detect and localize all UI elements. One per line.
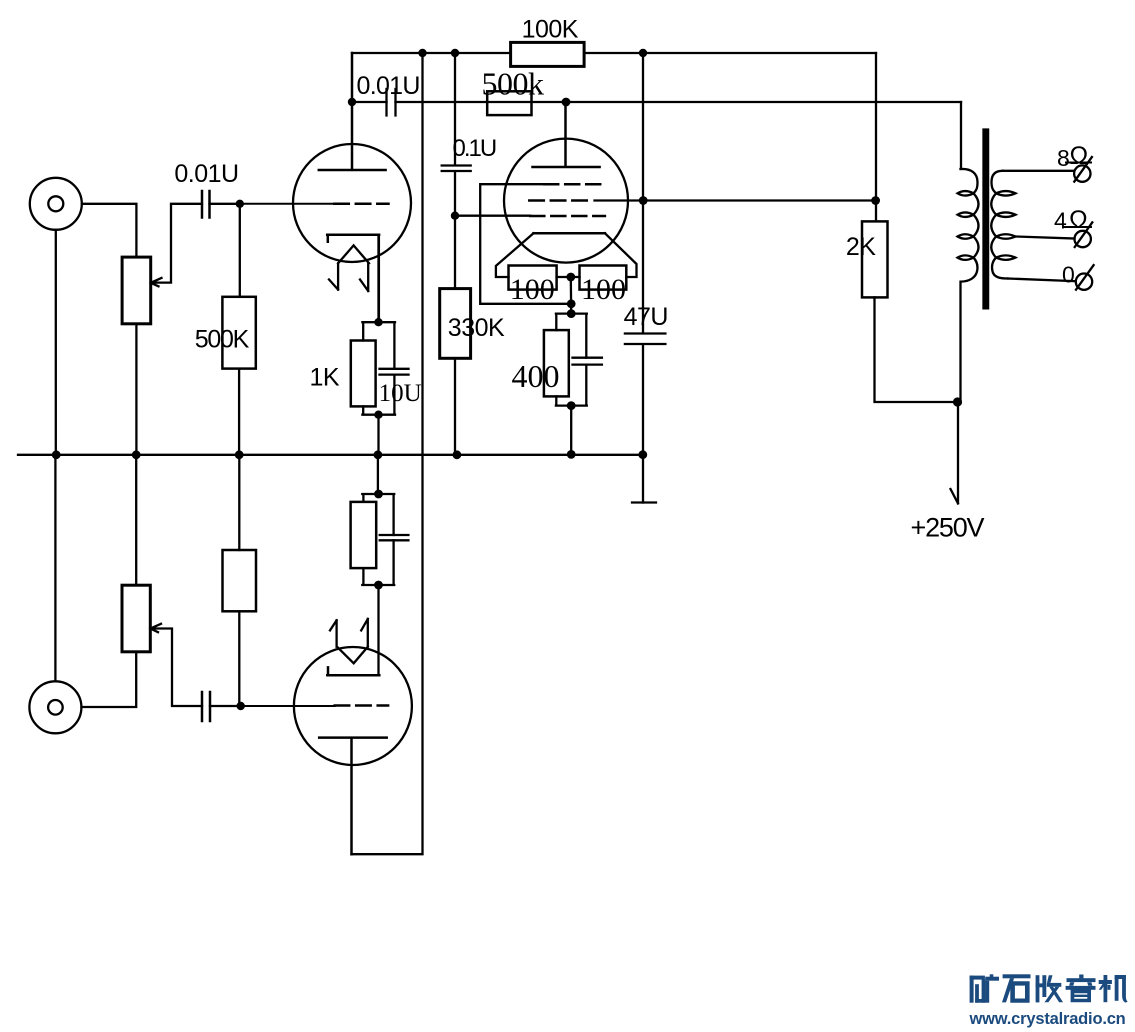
node rail / 500K xyxy=(235,450,244,459)
node V1-plate / feedback-bus xyxy=(348,98,356,106)
resistor 330K xyxy=(440,289,471,359)
svg-text:+250V: +250V xyxy=(911,513,985,543)
node 400 bottom xyxy=(567,401,576,410)
svg-text:330K: 330K xyxy=(448,314,505,342)
capacitor 0.01U feedback xyxy=(387,89,396,116)
svg-text:4: 4 xyxy=(1054,208,1067,234)
wire long vertical to lower plate xyxy=(352,53,423,854)
node rail / J1 xyxy=(52,450,61,459)
wire secondary tap 8ohm xyxy=(1003,170,1075,172)
tube V2 grid1 xyxy=(544,183,607,186)
wire 2K bottom to B+ node xyxy=(875,297,958,402)
CJK char kuang xyxy=(970,974,999,1002)
tube V3 cathode xyxy=(327,667,379,675)
wire J1 ground stub xyxy=(55,230,57,455)
node B+ / transformer primary xyxy=(953,397,962,406)
resistor 100 right xyxy=(580,266,627,290)
capacitor 400-bypass xyxy=(573,358,602,365)
ground xyxy=(632,501,656,503)
capacitor C-in-2 xyxy=(202,692,210,721)
wire 0.1U branch vertical xyxy=(454,53,456,455)
svg-text:0.1U: 0.1U xyxy=(453,135,496,162)
node cathode / grid1-bracket xyxy=(567,299,576,308)
svg-text:0.01U: 0.01U xyxy=(174,160,238,188)
node rail / 400 xyxy=(567,450,576,459)
resistor 400 xyxy=(544,330,569,396)
wire cathode node xyxy=(557,277,580,314)
svg-text:10U: 10U xyxy=(379,380,422,407)
tube V2 grid3 xyxy=(530,215,605,218)
wire 47U branch vertical xyxy=(642,53,644,503)
node top-bus / 47U-branch xyxy=(639,49,647,57)
wire V2 grid3 lead xyxy=(455,215,530,217)
tube V2 plate xyxy=(533,102,600,167)
resistor 1K + capacitor 10U upper xyxy=(362,235,395,369)
svg-text:Ω: Ω xyxy=(1069,206,1087,234)
tube V2 cathode xyxy=(534,232,605,235)
svg-text:0.01U: 0.01U xyxy=(357,72,420,100)
tube V1 plate xyxy=(319,53,386,170)
CJK char shou xyxy=(1036,975,1063,1002)
resistor 1K + capacitor 10U lower xyxy=(362,455,394,535)
capacitor C-in-1 0.01U xyxy=(202,191,210,218)
tube V3 grid xyxy=(241,705,335,707)
CJK char shi xyxy=(1002,974,1031,1002)
node 1K bottom xyxy=(374,411,382,419)
capacitor 47U xyxy=(625,334,666,345)
transformer core xyxy=(984,130,989,309)
svg-text:400: 400 xyxy=(512,358,560,394)
wire secondary tap 0 xyxy=(1008,279,1076,282)
node 1K-lower top xyxy=(374,490,383,499)
svg-text:500k: 500k xyxy=(482,66,545,102)
node V2-grid3 / 0.1U / 330K xyxy=(451,212,459,220)
input jack J1 xyxy=(30,178,82,230)
potentiometer P1 xyxy=(122,257,151,324)
wire J2 stub to rail xyxy=(54,455,56,682)
wire right down corner xyxy=(875,53,877,221)
node V2-cathode 100/100 xyxy=(566,273,575,282)
wire top bus xyxy=(352,52,876,54)
tube V3 envelope xyxy=(294,647,412,765)
svg-text:47U: 47U xyxy=(624,303,668,331)
resistor 500k xyxy=(487,91,531,115)
wire V2 cathode leads xyxy=(496,233,637,277)
terminal 4ohm xyxy=(1075,231,1091,247)
wire J1 to pot xyxy=(82,204,136,257)
wire B+ arrow xyxy=(951,402,959,503)
input jack J2 xyxy=(29,681,81,733)
tube V2 grid2 xyxy=(529,199,587,202)
node rail / ground xyxy=(638,450,647,459)
node V1-cathode / 1K top xyxy=(374,318,382,326)
node 400 top xyxy=(567,309,576,318)
tube V3 heater xyxy=(330,619,368,663)
tube V2 envelope xyxy=(504,139,628,263)
potentiometer P2 xyxy=(122,585,150,652)
node 1K-lower bottom xyxy=(374,581,383,590)
wire P1 bottom xyxy=(135,324,137,455)
svg-text:Ω: Ω xyxy=(1070,142,1088,170)
node rail / 1K-lower xyxy=(374,450,383,459)
tube V1 heater xyxy=(329,245,369,291)
tube V3 plate xyxy=(319,738,387,855)
svg-text:8: 8 xyxy=(1057,145,1069,171)
CJK char ji xyxy=(1099,975,1128,1003)
terminal 0 xyxy=(1076,274,1092,290)
tube V1 envelope xyxy=(293,144,411,262)
ground rail xyxy=(18,454,643,456)
wire J2 to pot2 xyxy=(82,652,137,707)
node V2-grid2 / 47U-branch xyxy=(639,196,648,205)
node V2-grid2 / 2K xyxy=(871,196,880,205)
wire transformer primary top xyxy=(960,102,962,169)
CJK char yin xyxy=(1066,975,1096,1003)
wire V2 grid1 bracket xyxy=(480,184,571,304)
tube V1 grid xyxy=(240,203,334,205)
watermark xyxy=(969,974,1128,1028)
resistor 500K lower xyxy=(223,550,257,611)
wire secondary tap 4ohm xyxy=(1016,237,1075,239)
svg-text:100: 100 xyxy=(510,273,555,306)
node rail / P1-P2 xyxy=(132,450,141,459)
terminal 8ohm xyxy=(1074,165,1090,181)
wire P1 wiper xyxy=(151,204,202,286)
wire 400 bracket bottom xyxy=(556,365,587,455)
wire C2 to grid xyxy=(210,705,241,707)
svg-text:100K: 100K xyxy=(522,16,579,44)
wire feedback bus xyxy=(352,101,961,103)
svg-text:1K: 1K xyxy=(310,364,340,392)
transformer T1 primary winding xyxy=(958,169,979,402)
wire 500K lower leads xyxy=(238,455,240,706)
resistor 2K xyxy=(862,221,888,297)
node top-bus / 0.1U-branch xyxy=(451,49,459,57)
resistor 500K upper xyxy=(222,297,255,369)
line under 4ohm xyxy=(1062,226,1092,228)
capacitor 0.1U xyxy=(442,166,471,172)
node V2-plate / feedback-bus xyxy=(562,98,571,107)
tube V1 cathode xyxy=(327,235,379,323)
wire grid2 to 2K node xyxy=(595,199,876,201)
resistor 100 left xyxy=(509,266,557,290)
svg-text:500K: 500K xyxy=(195,326,250,354)
svg-text:0: 0 xyxy=(1062,262,1074,288)
wire 500K leads xyxy=(238,204,241,455)
wire P2 top xyxy=(135,455,137,585)
resistor R-100K xyxy=(511,42,584,66)
line under 8ohm xyxy=(1065,162,1092,164)
transformer T1 secondary winding xyxy=(991,171,1015,279)
wire P2 wiper xyxy=(150,624,202,706)
node V3-grid / 500K-lower / C-in-2 xyxy=(237,702,245,710)
wire C1 to grid xyxy=(210,203,240,205)
node rail / 330K xyxy=(453,450,462,459)
node V1-grid / 500K / C-in xyxy=(236,200,244,208)
wire 400 bracket top xyxy=(556,314,587,358)
svg-text:100: 100 xyxy=(581,273,626,306)
node top-bus / long-vertical xyxy=(418,49,426,57)
svg-text:www.crystalradio.cn: www.crystalradio.cn xyxy=(969,1010,1126,1028)
svg-text:2K: 2K xyxy=(846,233,876,261)
